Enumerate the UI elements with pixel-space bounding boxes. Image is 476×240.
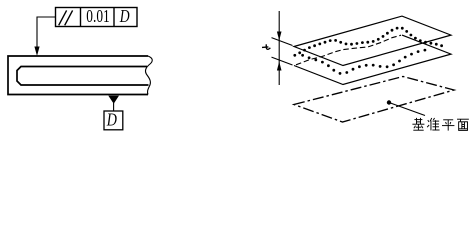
slot inner contour (17, 67, 149, 86)
upper extension tick (272, 38, 293, 46)
part break line (right end) (145, 56, 152, 95)
lower dotted surface row (301, 49, 426, 75)
leader line from frame (37, 17, 56, 47)
upper dimension arrowhead (277, 32, 282, 41)
label t (262, 44, 270, 49)
parallelism symbol // (59, 10, 73, 25)
datum plane reference dot (387, 100, 391, 104)
lower extension tick (272, 57, 293, 65)
leader arrowhead (34, 47, 39, 57)
datum triangle (filled) (108, 96, 119, 104)
datum letter D (106, 111, 117, 130)
glyph 准 (427, 118, 439, 130)
datum plane (dash-dot parallelogram) (294, 77, 454, 123)
svg-text:D: D (119, 7, 130, 26)
lower dimension arrowhead (277, 62, 282, 71)
glyph 平 (442, 120, 454, 131)
lower tolerance plane front edges (294, 35, 451, 84)
lower plane hidden back edge (dashed) (296, 35, 401, 65)
svg-text:0.01: 0.01 (86, 7, 109, 26)
datum box (104, 111, 123, 130)
upper dotted surface row (293, 27, 443, 57)
svg-text:D: D (106, 111, 117, 130)
glyph 基 (412, 118, 424, 130)
tolerance value 0.01 (86, 7, 109, 26)
datum letter D in frame (119, 7, 130, 26)
label 基准平面 (drawn glyphs) (412, 118, 468, 131)
t dimension line (278, 11, 280, 85)
leader to label (389, 103, 425, 116)
part outer outline (8, 56, 148, 95)
datum stem (113, 103, 115, 111)
upper tolerance plane (294, 16, 451, 65)
glyph 面 (457, 119, 469, 130)
feature control frame (56, 8, 138, 27)
